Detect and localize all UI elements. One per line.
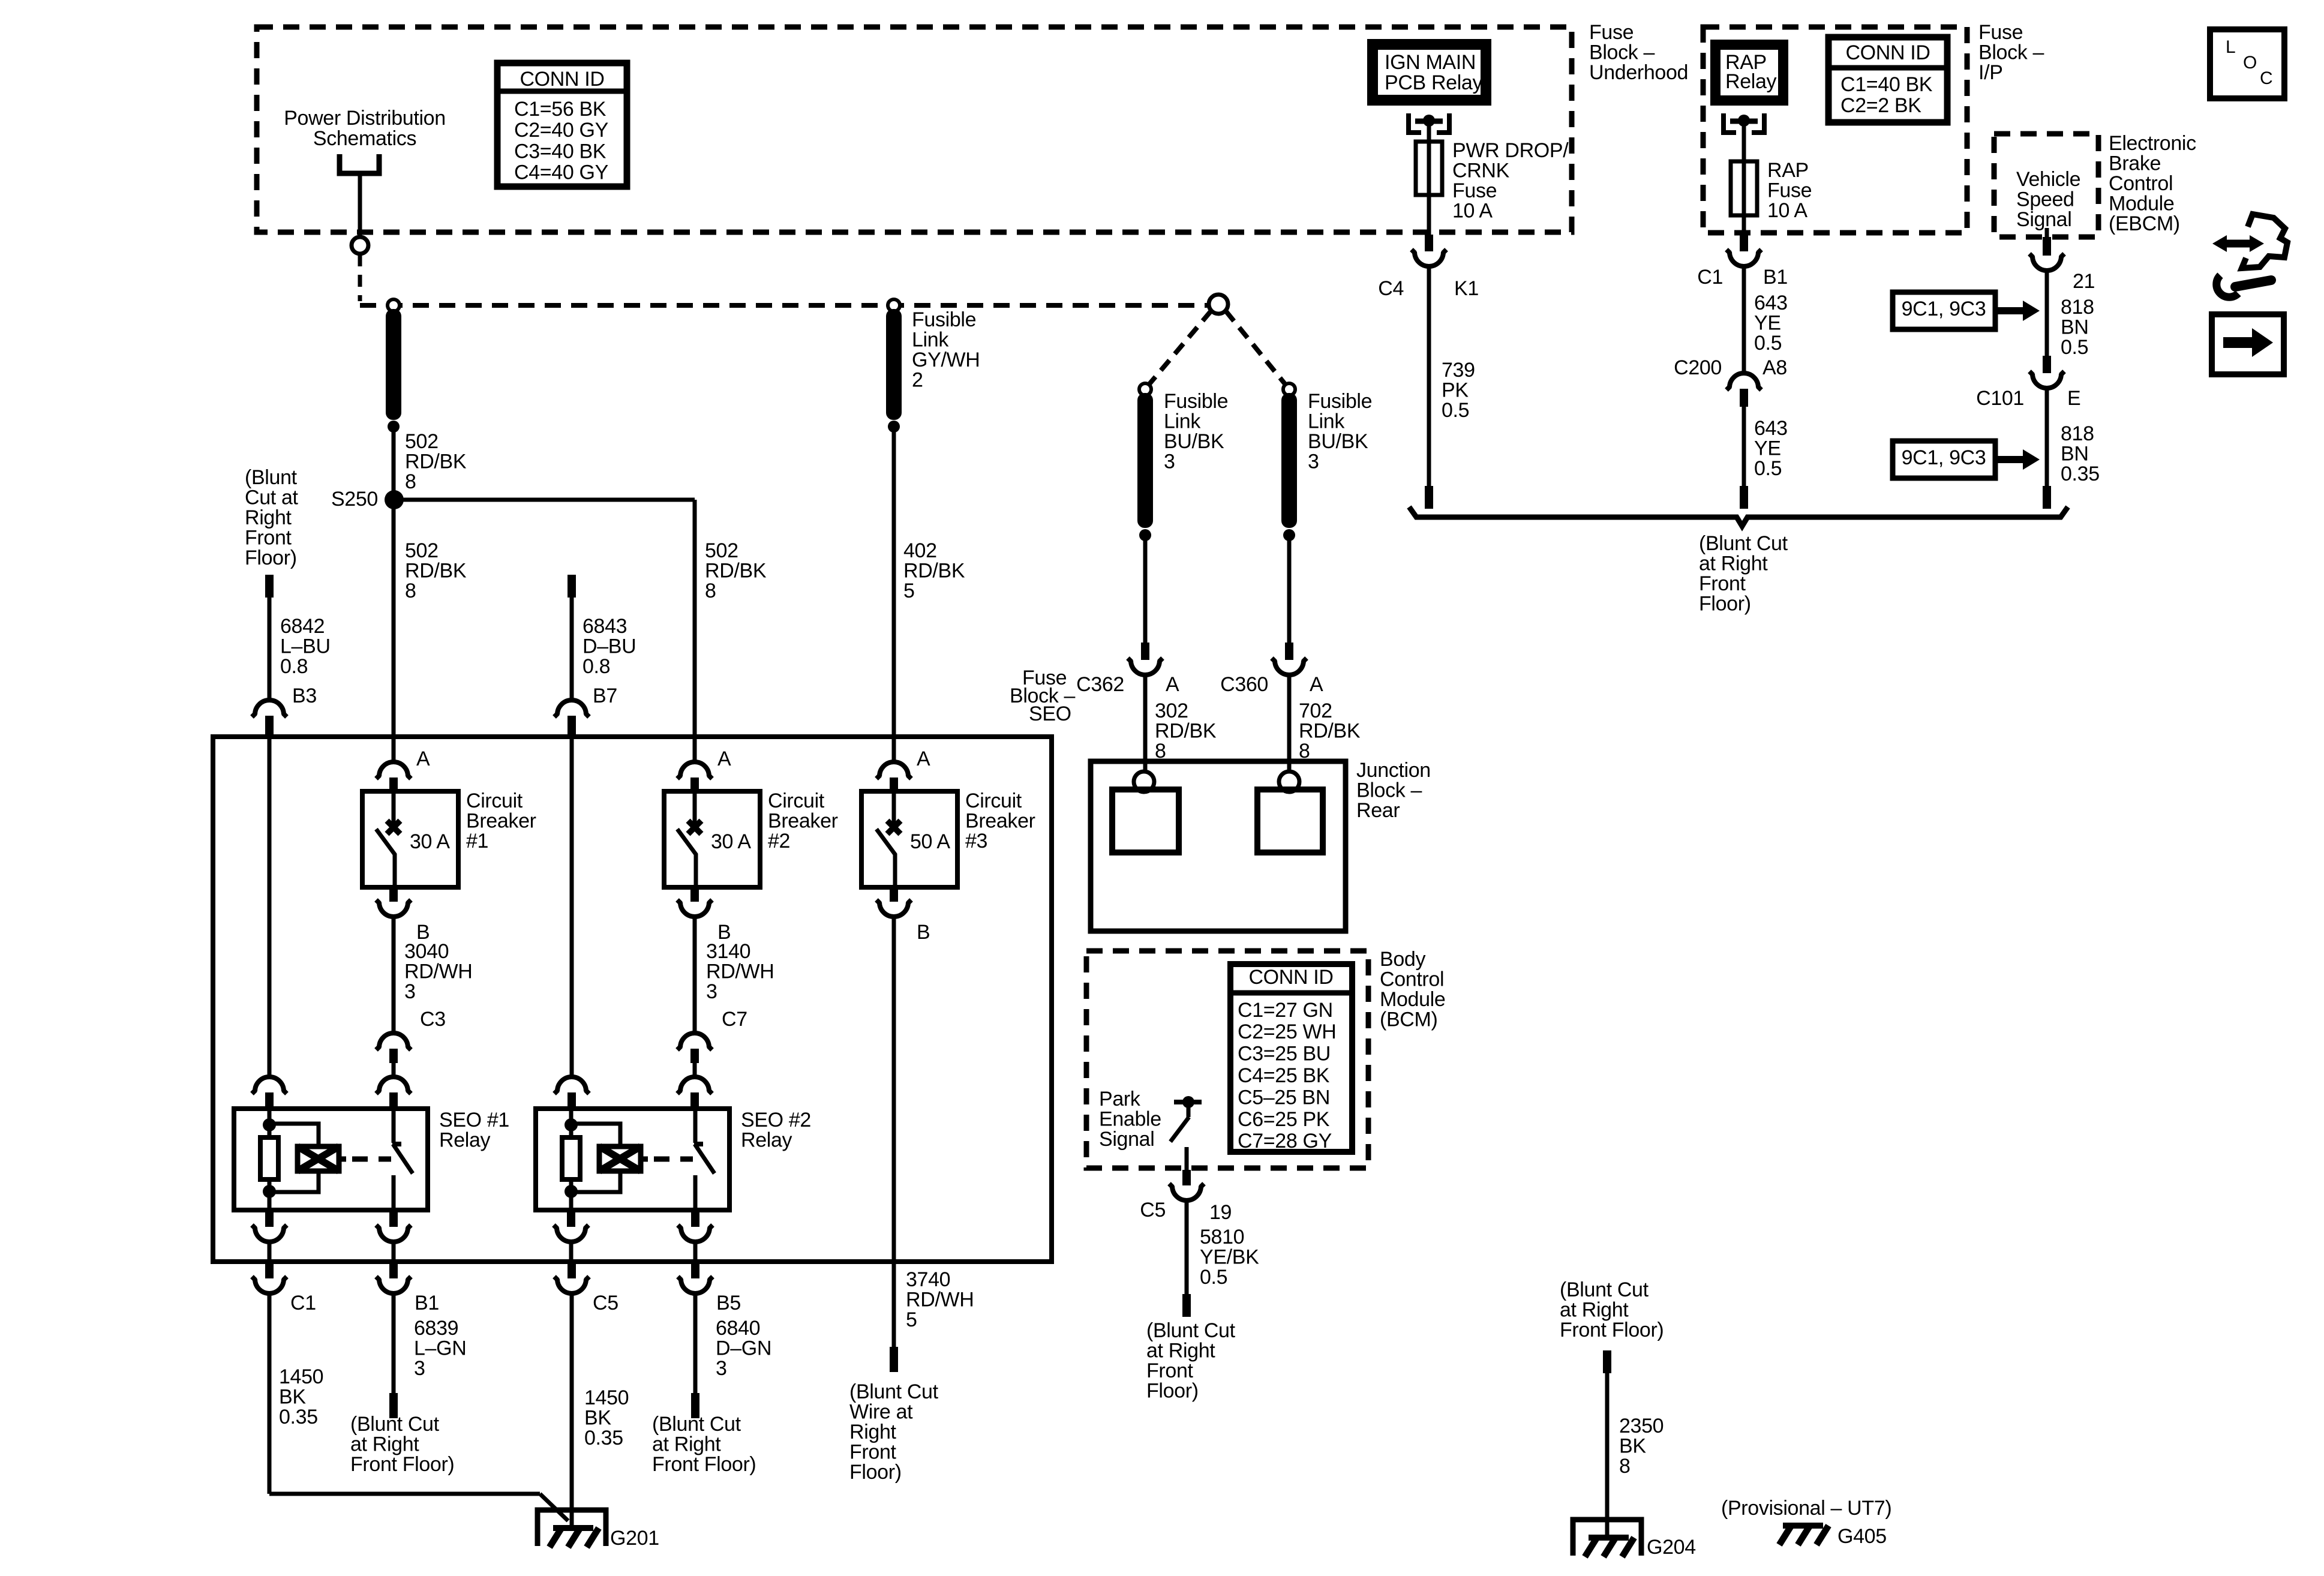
svg-text:C1: C1 [1697, 266, 1723, 289]
svg-text:8: 8 [405, 470, 416, 493]
svg-text:GY/WH: GY/WH [912, 349, 980, 371]
svg-text:643: 643 [1754, 292, 1788, 314]
svg-text:at Right: at Right [1560, 1298, 1629, 1321]
svg-text:CRNK: CRNK [1452, 159, 1510, 182]
svg-text:C101: C101 [1976, 387, 2024, 410]
svg-text:Fuse: Fuse [1452, 179, 1497, 202]
svg-text:Circuit: Circuit [768, 789, 825, 812]
svg-text:C3: C3 [420, 1008, 446, 1031]
svg-text:Power Distribution: Power Distribution [284, 107, 446, 130]
svg-text:C1=56 BK: C1=56 BK [514, 98, 606, 121]
svg-text:#1: #1 [466, 830, 488, 852]
svg-text:8: 8 [1619, 1455, 1631, 1478]
svg-text:0.5: 0.5 [2061, 336, 2088, 359]
svg-text:6842: 6842 [280, 615, 325, 638]
svg-text:Electronic: Electronic [2109, 132, 2196, 155]
svg-text:739: 739 [1442, 359, 1475, 382]
svg-text:8: 8 [405, 580, 416, 602]
svg-text:Fuse: Fuse [1589, 21, 1634, 44]
svg-text:0.35: 0.35 [584, 1427, 623, 1449]
svg-text:3: 3 [404, 980, 416, 1003]
svg-text:(BCM): (BCM) [1380, 1008, 1437, 1031]
svg-text:C362: C362 [1076, 673, 1124, 696]
svg-text:Relay: Relay [1725, 70, 1777, 93]
svg-text:Right: Right [849, 1421, 897, 1443]
svg-text:L–GN: L–GN [414, 1337, 466, 1359]
svg-text:(Blunt Cut: (Blunt Cut [1560, 1278, 1649, 1301]
svg-text:818: 818 [2061, 422, 2094, 445]
svg-text:A: A [416, 748, 430, 770]
svg-text:RD/BK: RD/BK [405, 450, 467, 473]
svg-text:L: L [2226, 37, 2235, 57]
svg-text:0.8: 0.8 [582, 655, 610, 678]
svg-text:Control: Control [1380, 968, 1444, 990]
svg-text:Schematics: Schematics [313, 127, 416, 150]
svg-text:0.5: 0.5 [1754, 457, 1782, 480]
svg-text:G204: G204 [1647, 1536, 1696, 1559]
svg-text:C2=40 GY: C2=40 GY [514, 119, 608, 142]
svg-text:C200: C200 [1674, 356, 1722, 379]
svg-text:C1: C1 [290, 1292, 316, 1314]
svg-text:PWR DROP/: PWR DROP/ [1452, 139, 1569, 162]
svg-text:2: 2 [912, 369, 923, 392]
svg-text:Block –: Block – [1978, 41, 2044, 64]
svg-text:1450: 1450 [584, 1386, 629, 1409]
svg-text:Junction: Junction [1356, 759, 1431, 782]
svg-text:Rear: Rear [1356, 799, 1400, 822]
svg-text:10 A: 10 A [1452, 200, 1493, 223]
svg-text:Breaker: Breaker [768, 809, 838, 832]
svg-text:5: 5 [906, 1308, 917, 1331]
svg-text:Right: Right [245, 506, 292, 529]
svg-text:A: A [1310, 673, 1323, 696]
svg-text:A: A [1166, 673, 1179, 696]
svg-text:Block –: Block – [1589, 41, 1655, 64]
svg-text:21: 21 [2073, 270, 2095, 293]
svg-text:B: B [917, 921, 930, 944]
svg-text:PCB Relay: PCB Relay [1385, 71, 1482, 94]
svg-text:RD/WH: RD/WH [404, 960, 472, 983]
svg-text:50 A: 50 A [910, 830, 950, 853]
svg-text:8: 8 [705, 580, 716, 602]
svg-text:Fuse: Fuse [1978, 21, 2023, 44]
svg-text:O: O [2243, 53, 2257, 73]
svg-text:SEO: SEO [1029, 703, 1071, 725]
svg-text:CONN ID: CONN ID [520, 68, 604, 91]
svg-text:0.5: 0.5 [1442, 399, 1469, 422]
svg-text:RD/BK: RD/BK [705, 559, 767, 582]
svg-text:Control: Control [2109, 172, 2173, 195]
svg-text:C5: C5 [1140, 1199, 1166, 1221]
svg-text:2350: 2350 [1619, 1415, 1664, 1437]
svg-text:1450: 1450 [279, 1365, 323, 1388]
svg-text:YE/BK: YE/BK [1200, 1245, 1259, 1268]
svg-text:YE: YE [1754, 437, 1781, 460]
svg-text:502: 502 [405, 539, 439, 562]
svg-text:Front: Front [245, 527, 292, 550]
svg-text:Enable: Enable [1099, 1107, 1161, 1130]
svg-text:Circuit: Circuit [466, 789, 523, 812]
svg-text:0.35: 0.35 [2061, 463, 2100, 485]
svg-text:BU/BK: BU/BK [1308, 430, 1368, 453]
svg-text:30 A: 30 A [410, 830, 450, 853]
svg-text:643: 643 [1754, 417, 1788, 440]
svg-text:Floor): Floor) [1146, 1380, 1199, 1403]
svg-text:L–BU: L–BU [280, 635, 331, 658]
svg-text:B7: B7 [593, 685, 617, 707]
svg-text:A: A [717, 748, 731, 770]
svg-text:Link: Link [912, 328, 949, 351]
svg-text:Fusible: Fusible [1164, 390, 1228, 413]
svg-text:3740: 3740 [906, 1268, 950, 1291]
svg-text:Fusible: Fusible [912, 308, 976, 331]
svg-text:3: 3 [716, 1357, 727, 1380]
svg-text:818: 818 [2061, 296, 2094, 319]
svg-text:Signal: Signal [2016, 208, 2071, 231]
svg-text:Circuit: Circuit [965, 789, 1022, 812]
svg-text:Brake: Brake [2109, 152, 2161, 175]
svg-text:Breaker: Breaker [965, 809, 1035, 832]
svg-text:0.5: 0.5 [1754, 332, 1782, 355]
svg-text:402: 402 [903, 539, 937, 562]
svg-text:Link: Link [1164, 410, 1201, 433]
svg-text:C3=25 BU: C3=25 BU [1238, 1043, 1331, 1065]
svg-text:Link: Link [1308, 410, 1345, 433]
svg-text:Body: Body [1380, 948, 1425, 971]
svg-text:BN: BN [2061, 316, 2089, 338]
svg-text:(Blunt Cut: (Blunt Cut [1699, 532, 1788, 555]
svg-text:702: 702 [1299, 700, 1332, 722]
svg-text:Relay: Relay [741, 1128, 792, 1151]
svg-text:502: 502 [405, 430, 439, 453]
svg-text:Fuse: Fuse [1767, 179, 1812, 202]
svg-text:S250: S250 [331, 488, 378, 511]
svg-text:Front: Front [849, 1441, 897, 1464]
svg-text:C5: C5 [593, 1292, 618, 1314]
svg-text:3: 3 [414, 1357, 425, 1380]
svg-text:0.35: 0.35 [279, 1406, 318, 1428]
svg-text:at Right: at Right [1146, 1339, 1215, 1362]
svg-text:C3=40 BK: C3=40 BK [514, 140, 606, 163]
svg-text:BK: BK [584, 1406, 611, 1429]
svg-text:0.8: 0.8 [280, 655, 308, 678]
svg-text:6843: 6843 [582, 615, 627, 638]
svg-text:5810: 5810 [1200, 1226, 1244, 1248]
svg-text:3: 3 [706, 980, 717, 1003]
svg-text:RD/BK: RD/BK [405, 559, 467, 582]
svg-text:K1: K1 [1454, 277, 1479, 300]
svg-text:at Right: at Right [350, 1433, 419, 1455]
svg-text:Front Floor): Front Floor) [1560, 1319, 1664, 1341]
svg-text:Speed: Speed [2016, 188, 2074, 211]
svg-text:Park: Park [1099, 1088, 1141, 1110]
svg-text:at Right: at Right [652, 1433, 721, 1455]
svg-text:Module: Module [2109, 193, 2174, 215]
svg-text:302: 302 [1155, 700, 1188, 722]
svg-text:BN: BN [2061, 442, 2089, 465]
svg-text:(Blunt Cut: (Blunt Cut [849, 1380, 939, 1403]
svg-text:Cut at: Cut at [245, 486, 299, 509]
svg-text:RD/BK: RD/BK [903, 559, 965, 582]
svg-text:Block –: Block – [1356, 779, 1422, 801]
svg-text:C1=40 BK: C1=40 BK [1840, 73, 1933, 96]
svg-text:RD/BK: RD/BK [1155, 719, 1217, 742]
svg-text:(Provisional – UT7): (Provisional – UT7) [1721, 1497, 1891, 1520]
svg-text:5: 5 [903, 580, 915, 602]
svg-text:RAP: RAP [1767, 159, 1809, 182]
svg-text:3140: 3140 [706, 940, 750, 963]
svg-text:3: 3 [1308, 451, 1319, 473]
svg-text:Floor): Floor) [1699, 593, 1751, 616]
svg-text:Floor): Floor) [245, 547, 297, 569]
svg-text:(Blunt Cut: (Blunt Cut [1146, 1319, 1236, 1342]
svg-text:C1=27 GN: C1=27 GN [1238, 999, 1333, 1022]
svg-text:C2=25 WH: C2=25 WH [1238, 1020, 1336, 1043]
svg-text:6840: 6840 [716, 1317, 760, 1340]
svg-text:Vehicle: Vehicle [2016, 168, 2080, 191]
svg-text:Module: Module [1380, 988, 1445, 1011]
svg-text:Breaker: Breaker [466, 809, 536, 832]
svg-text:Front Floor): Front Floor) [652, 1453, 756, 1476]
svg-text:C7: C7 [722, 1008, 747, 1031]
svg-text:YE: YE [1754, 311, 1781, 334]
svg-text:CONN ID: CONN ID [1845, 41, 1930, 64]
svg-text:(EBCM): (EBCM) [2109, 212, 2180, 235]
svg-text:3: 3 [1164, 451, 1175, 473]
svg-text:D–BU: D–BU [582, 635, 636, 658]
svg-text:C4=40 GY: C4=40 GY [514, 161, 608, 184]
svg-text:Front: Front [1699, 572, 1746, 595]
svg-text:C2=2 BK: C2=2 BK [1840, 94, 1921, 117]
svg-text:Relay: Relay [439, 1128, 491, 1151]
svg-text:B3: B3 [292, 685, 317, 707]
svg-text:A8: A8 [1762, 356, 1787, 379]
svg-text:SEO #1: SEO #1 [439, 1109, 509, 1131]
svg-text:0.5: 0.5 [1200, 1266, 1227, 1289]
svg-text:(Blunt Cut: (Blunt Cut [350, 1413, 440, 1436]
svg-text:at Right: at Right [1699, 552, 1768, 575]
svg-text:SEO #2: SEO #2 [741, 1109, 811, 1131]
svg-text:RD/WH: RD/WH [706, 960, 774, 983]
svg-text:C360: C360 [1220, 673, 1268, 696]
svg-text:E: E [2067, 387, 2080, 410]
svg-text:D–GN: D–GN [716, 1337, 771, 1359]
svg-text:Floor): Floor) [849, 1461, 902, 1484]
svg-text:Front: Front [1146, 1359, 1194, 1382]
svg-text:C6=25 PK: C6=25 PK [1238, 1108, 1330, 1131]
svg-text:Underhood: Underhood [1589, 61, 1688, 84]
svg-text:B1: B1 [1763, 266, 1788, 289]
svg-text:G201: G201 [610, 1527, 659, 1550]
svg-text:Fusible: Fusible [1308, 390, 1372, 413]
svg-text:B5: B5 [716, 1292, 741, 1314]
svg-text:#3: #3 [965, 830, 987, 852]
svg-text:RD/WH: RD/WH [906, 1288, 974, 1311]
svg-text:3040: 3040 [404, 940, 449, 963]
svg-text:B1: B1 [415, 1292, 439, 1314]
svg-text:BU/BK: BU/BK [1164, 430, 1224, 453]
svg-text:PK: PK [1442, 379, 1469, 401]
svg-text:IGN MAIN: IGN MAIN [1385, 51, 1476, 74]
svg-text:C: C [2260, 68, 2272, 88]
svg-text:502: 502 [705, 539, 738, 562]
svg-text:9C1, 9C3: 9C1, 9C3 [1902, 298, 1986, 320]
svg-text:30 A: 30 A [711, 830, 751, 853]
svg-text:6839: 6839 [414, 1317, 458, 1340]
svg-text:A: A [917, 748, 930, 770]
svg-text:C4=25 BK: C4=25 BK [1238, 1064, 1330, 1087]
svg-text:BK: BK [279, 1385, 306, 1408]
svg-text:C4: C4 [1378, 277, 1404, 300]
svg-text:10 A: 10 A [1767, 199, 1807, 222]
svg-text:C7=28 GY: C7=28 GY [1238, 1130, 1332, 1152]
svg-text:I/P: I/P [1978, 61, 2003, 84]
svg-text:Signal: Signal [1099, 1128, 1154, 1151]
svg-text:(Blunt: (Blunt [245, 466, 298, 489]
svg-text:G405: G405 [1837, 1525, 1887, 1548]
svg-text:19: 19 [1209, 1201, 1232, 1224]
svg-text:#2: #2 [768, 830, 790, 852]
svg-text:BK: BK [1619, 1434, 1646, 1457]
svg-text:Front Floor): Front Floor) [350, 1453, 454, 1476]
svg-text:CONN ID: CONN ID [1248, 966, 1333, 989]
svg-text:(Blunt Cut: (Blunt Cut [652, 1413, 741, 1436]
svg-text:C5–25 BN: C5–25 BN [1238, 1086, 1330, 1109]
svg-text:RD/BK: RD/BK [1299, 719, 1361, 742]
svg-text:Wire at: Wire at [849, 1400, 913, 1423]
svg-text:9C1, 9C3: 9C1, 9C3 [1902, 446, 1986, 469]
